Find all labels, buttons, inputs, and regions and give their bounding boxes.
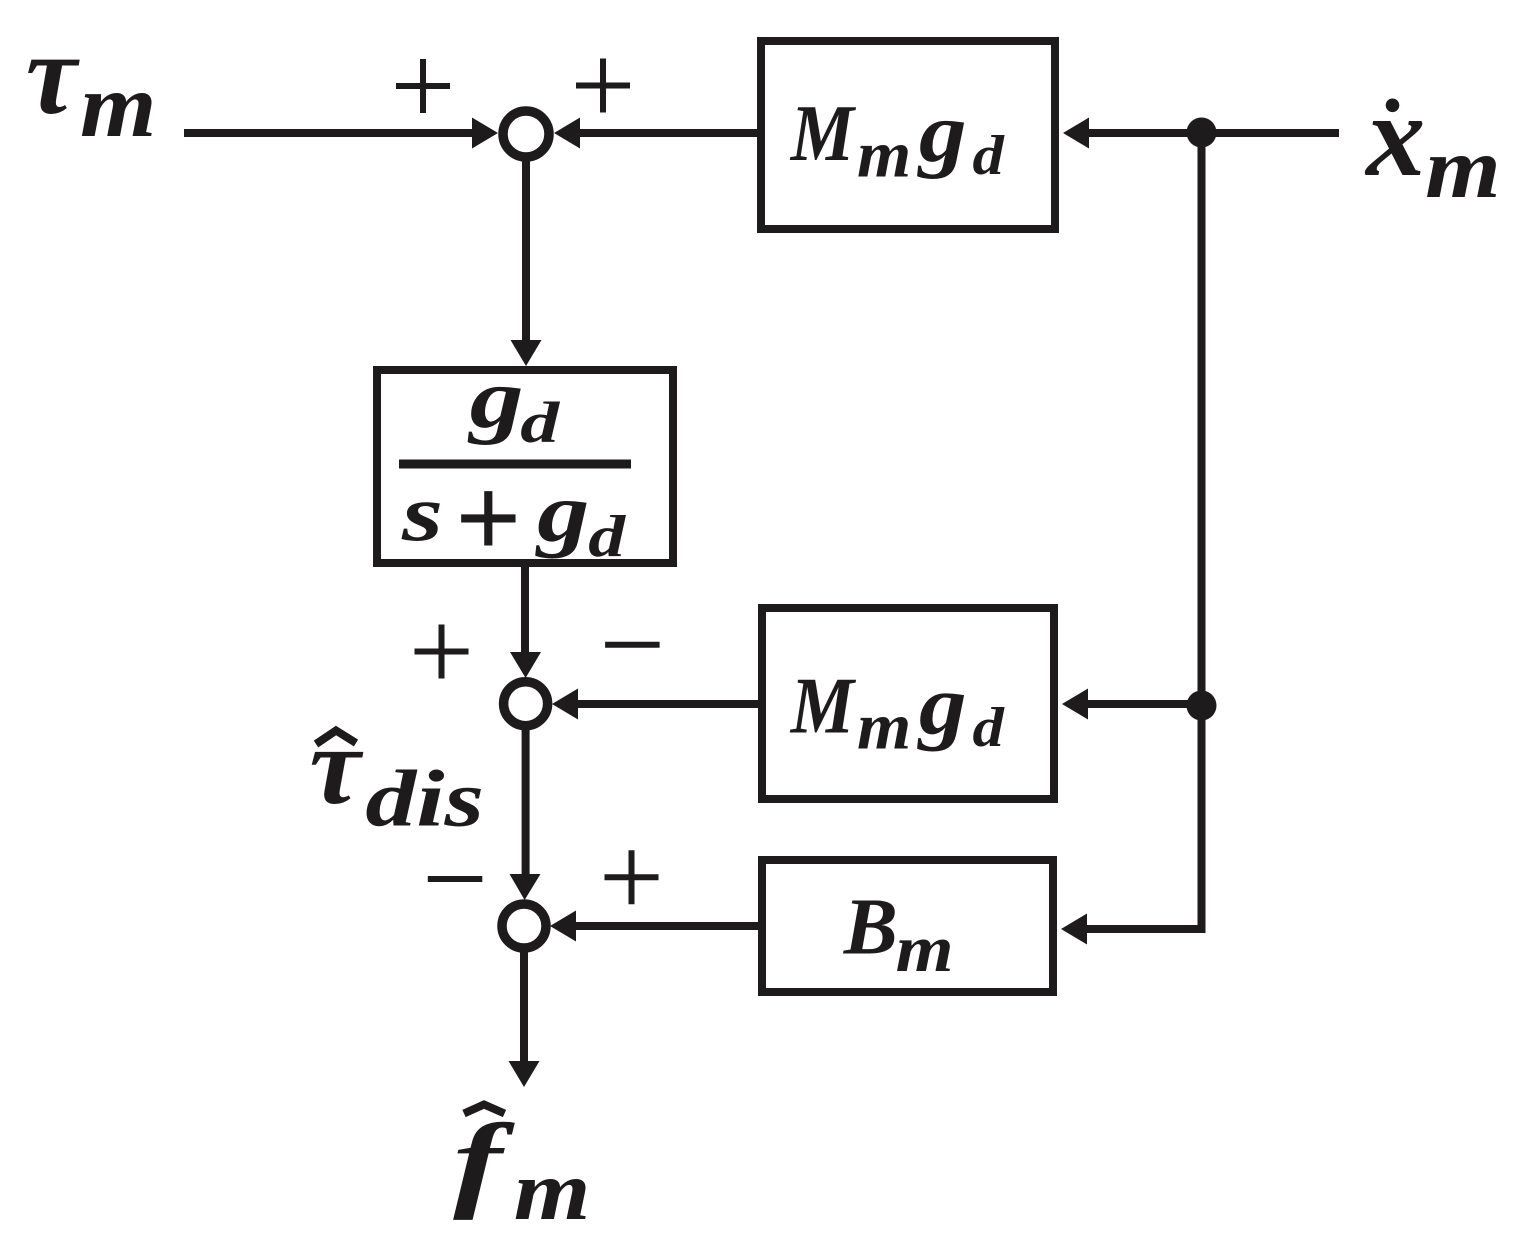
plus sign at S1 left input: [396, 59, 450, 113]
wire block Bm to S3: [550, 911, 758, 942]
svg-text:m: m: [857, 689, 911, 763]
label Bm: [843, 882, 954, 987]
block gd/(s+gd): [377, 370, 673, 563]
summing junction S2: [504, 682, 548, 726]
wire vertical trunk from D1 down to Bm branch corner: [1198, 133, 1206, 933]
svg-text:d: d: [520, 390, 561, 454]
svg-text:g: g: [917, 86, 967, 180]
minus sign at S2 right input: [605, 642, 660, 648]
label gd/(s+gd): [399, 352, 631, 583]
svg-text:g: g: [535, 467, 589, 559]
summing junction S3: [502, 904, 546, 948]
wire D2 to block Mmgd lower: [1062, 689, 1201, 720]
svg-text:M: M: [790, 663, 857, 751]
label f_hat_m output: [453, 1102, 590, 1238]
wire block gd/(s+gd) down to summing junction S2: [510, 567, 541, 678]
wire trunk corner to block Bm: [1061, 914, 1202, 945]
svg-text:m: m: [80, 56, 156, 156]
wire xdot_m to block Mmgd upper: [1063, 118, 1339, 149]
wire S3 down to output f_hat_m: [509, 951, 540, 1087]
plus sign at S2 top-left input: [415, 625, 469, 679]
label Mmgd lower: [790, 658, 1005, 763]
junction dot D2 on vertical trunk: [1187, 691, 1217, 721]
block Bm: [762, 860, 1053, 992]
wire S2 down to summing junction S3: [510, 729, 541, 900]
svg-text:d: d: [973, 124, 1006, 186]
node tau_m input label: [26, 11, 157, 156]
block Mmgd upper: [761, 41, 1055, 229]
svg-text:m: m: [896, 913, 954, 986]
wire S1 down to block gd/(s+gd): [511, 160, 542, 366]
svg-text:f: f: [453, 1102, 515, 1220]
svg-text:+: +: [454, 454, 521, 583]
svg-text:m: m: [857, 117, 911, 191]
svg-text:M: M: [790, 90, 857, 178]
wire block Mmgd upper to S1: [554, 118, 757, 149]
svg-text:d: d: [588, 504, 627, 570]
wire block Mmgd lower to S2: [552, 689, 758, 720]
minus sign at S3 top-left input: [428, 876, 483, 882]
label Mmgd upper: [790, 86, 1005, 191]
svg-text:m: m: [1425, 120, 1501, 216]
svg-text:τ: τ: [26, 11, 80, 138]
summing junction S1: [503, 111, 549, 157]
junction dot D1 on xdot_m line: [1187, 118, 1217, 148]
plus sign at S1 right input: [576, 59, 630, 113]
label tau_hat_dis: [309, 703, 484, 842]
svg-text:d: d: [973, 696, 1006, 758]
svg-text:m: m: [514, 1144, 591, 1238]
svg-text:g: g: [917, 658, 967, 752]
svg-text:g: g: [467, 352, 523, 446]
block Mmgd lower: [762, 608, 1054, 799]
svg-text:τ: τ: [309, 703, 364, 827]
svg-text:x: x: [1364, 70, 1425, 201]
svg-text:s: s: [401, 470, 443, 558]
svg-text:B: B: [843, 882, 898, 972]
wire tau_m to summing junction S1: [184, 118, 498, 149]
node xdot_m input label: [1364, 70, 1500, 216]
svg-text:dis: dis: [365, 753, 484, 843]
plus sign at S3 right input: [605, 850, 659, 904]
